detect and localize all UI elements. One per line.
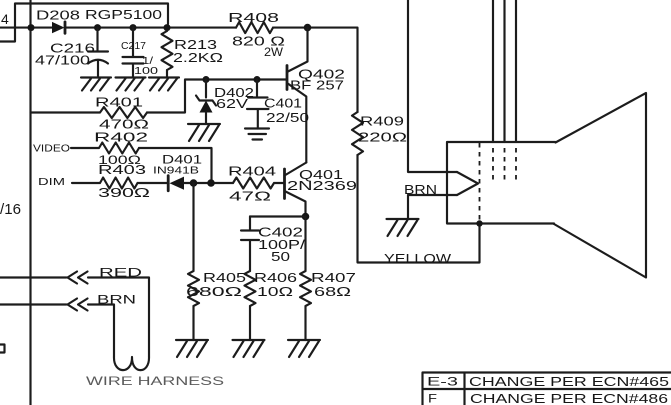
label rev E-3 xyxy=(427,375,459,389)
diode D208 xyxy=(52,22,65,33)
label YELLOW xyxy=(384,252,451,266)
wire RED harness xyxy=(0,278,149,358)
resistor R409 xyxy=(352,112,363,155)
label R408 xyxy=(228,11,279,25)
label 2.2KΩ xyxy=(173,51,223,65)
wire: BRN/grid line from top xyxy=(408,0,457,172)
label R407 xyxy=(311,271,356,285)
svg-text:YELLOW: YELLOW xyxy=(384,252,451,266)
svg-text:WIRE HARNESS: WIRE HARNESS xyxy=(86,374,224,388)
resistor R404 xyxy=(233,178,285,189)
label D401 xyxy=(162,153,202,167)
svg-text:BF 257: BF 257 xyxy=(290,79,344,93)
ground (chassis) under R407 xyxy=(288,340,320,357)
resistor R402 xyxy=(71,143,139,154)
wire: dashed cathode line in neck xyxy=(479,143,481,222)
resistor R408 xyxy=(236,22,273,33)
connector arrow into CRT xyxy=(457,172,478,195)
resistor R405 xyxy=(188,183,199,340)
label R409 xyxy=(360,115,404,129)
svg-text:47/100: 47/100 xyxy=(35,54,90,68)
svg-text:4: 4 xyxy=(1,11,9,27)
resistor R406 xyxy=(245,271,256,340)
node: junction dot CRT neck xyxy=(476,220,482,226)
label C402 xyxy=(258,226,303,240)
CRT funnel envelope xyxy=(554,93,646,278)
svg-text:BRN: BRN xyxy=(97,293,136,307)
wire: main +V rail y=27.6 xyxy=(0,28,358,112)
label D208 xyxy=(36,9,80,23)
svg-text:R402: R402 xyxy=(94,130,148,145)
label 50 xyxy=(271,250,290,264)
svg-text:R407: R407 xyxy=(311,271,356,285)
svg-text:10Ω: 10Ω xyxy=(257,285,293,299)
zener diode D402 xyxy=(196,80,216,125)
wire BRN harness xyxy=(0,305,114,358)
node: junction dot R402 tap xyxy=(207,179,215,187)
label 47/100 xyxy=(35,54,90,68)
label 100Ω xyxy=(98,153,141,167)
wire: YELLOW net to CRT cathode xyxy=(358,155,480,263)
ground (chassis) under C216 xyxy=(81,78,111,91)
node: junction dot R213 xyxy=(164,24,171,31)
node /16 (page reference) xyxy=(0,201,21,218)
node: junction dot Q402 collector xyxy=(304,24,312,32)
label WIRE HARNESS xyxy=(86,374,224,388)
label 390Ω xyxy=(98,186,150,200)
label R404 xyxy=(228,165,276,179)
svg-text:E-3: E-3 xyxy=(427,375,459,389)
label R401 xyxy=(95,96,143,110)
wire: top-left entry loop over D208 label xyxy=(0,4,168,42)
svg-text:/16: /16 xyxy=(0,201,21,218)
ground (chassis) under C217 xyxy=(116,78,146,91)
svg-text:C217: C217 xyxy=(121,41,146,52)
svg-text:62V: 62V xyxy=(216,97,249,111)
label rev F change note xyxy=(470,392,668,405)
ground (chassis) under R405 xyxy=(176,340,208,357)
node VIDEO xyxy=(33,143,70,155)
svg-text:R406: R406 xyxy=(254,271,297,285)
connector chevrons RED xyxy=(68,272,88,284)
resistor R401 xyxy=(31,107,148,118)
label R405 xyxy=(203,271,246,285)
wire: harness strain loops xyxy=(114,357,149,370)
label IN941B xyxy=(153,165,199,177)
svg-text:2.2KΩ: 2.2KΩ xyxy=(173,51,223,65)
svg-text:100: 100 xyxy=(134,65,158,77)
svg-text:C401: C401 xyxy=(264,97,302,111)
svg-text:68Ω: 68Ω xyxy=(314,285,351,299)
svg-text:680Ω: 680Ω xyxy=(186,285,242,299)
svg-text:F: F xyxy=(428,392,437,405)
label R402 xyxy=(94,130,148,145)
svg-text:50: 50 xyxy=(271,250,290,264)
wire: BRN ground stub xyxy=(408,195,457,219)
svg-text:22/50: 22/50 xyxy=(266,111,309,125)
label C401 xyxy=(264,97,302,111)
label rev E-3 change note xyxy=(469,375,669,389)
svg-text:R213: R213 xyxy=(174,38,217,52)
resistor R407 xyxy=(300,271,311,340)
ground (chassis) under R406 xyxy=(233,340,265,357)
wire: CRT gun lead 1 xyxy=(492,0,494,142)
ground (chassis) under D402 xyxy=(188,124,220,141)
node 4 (page reference) xyxy=(1,11,9,27)
node DIM xyxy=(38,176,65,188)
label RED xyxy=(99,266,143,280)
node: junction dot C217 xyxy=(130,24,137,31)
wire: R402 output to DIM node xyxy=(139,148,212,183)
svg-text:R405: R405 xyxy=(203,271,246,285)
wire: dashed gun lead 1 inside CRT xyxy=(492,148,494,183)
label BRN xyxy=(404,183,437,197)
diode D401 xyxy=(168,176,233,191)
node: junction dot C216 xyxy=(94,24,101,31)
label 1/ xyxy=(142,55,153,67)
label rev F xyxy=(428,392,437,405)
node: junction dot R405 tap xyxy=(190,179,198,187)
label R213 xyxy=(174,38,217,52)
ground (chassis) under R213 xyxy=(149,78,179,91)
svg-text:47Ω: 47Ω xyxy=(229,190,271,204)
label Q402 xyxy=(298,68,345,82)
label 2N2369 xyxy=(287,179,357,193)
node: junction dot Q401 emitter xyxy=(302,213,310,221)
wire: base rail of Q402 from R401 riser xyxy=(147,80,287,113)
label 22/50 xyxy=(266,111,309,125)
connector chevrons BRN xyxy=(68,299,88,311)
label D402 xyxy=(214,86,254,100)
resistor R403 xyxy=(72,178,168,189)
svg-text:CHANGE PER ECN#486: CHANGE PER ECN#486 xyxy=(470,392,668,405)
wire: CRT gun lead 3 xyxy=(515,0,517,142)
label RGP5100 xyxy=(85,8,162,22)
label 68Ω xyxy=(314,285,351,299)
label 100P/ xyxy=(258,238,306,252)
svg-text:2W: 2W xyxy=(264,47,283,59)
wire: dashed gun lead 2 inside CRT xyxy=(504,148,506,183)
svg-text:R404: R404 xyxy=(228,165,276,179)
svg-text:R401: R401 xyxy=(95,96,143,110)
svg-text:R409: R409 xyxy=(360,115,404,129)
svg-text:CHANGE PER ECN#465: CHANGE PER ECN#465 xyxy=(469,375,669,389)
svg-text:RED: RED xyxy=(99,266,143,280)
svg-text:DIM: DIM xyxy=(38,176,65,188)
CRT neck box xyxy=(447,142,556,224)
capacitor C217 xyxy=(123,28,144,78)
node: junction dot D402 xyxy=(203,76,210,83)
label R403 xyxy=(98,162,146,177)
capacitor C402 xyxy=(241,217,259,272)
resistor R213 xyxy=(162,31,173,78)
svg-text:220Ω: 220Ω xyxy=(358,131,407,145)
wire: emitter tap to C402 xyxy=(250,217,306,272)
wire: dashed gun lead 3 inside CRT xyxy=(515,148,517,183)
svg-text:D208: D208 xyxy=(36,9,80,23)
node: junction dot C401 xyxy=(254,76,261,83)
transistor Q402 xyxy=(287,28,308,163)
svg-text:390Ω: 390Ω xyxy=(98,186,150,200)
svg-text:BRN: BRN xyxy=(404,183,437,197)
wire: left vertical bus xyxy=(29,0,31,405)
label BF 257 xyxy=(290,79,344,93)
label BRN harness xyxy=(97,293,136,307)
label 100 xyxy=(134,65,158,77)
label 62V xyxy=(216,97,249,111)
label 680Ω xyxy=(186,285,242,299)
label 470Ω xyxy=(99,118,149,132)
svg-text:2N2369: 2N2369 xyxy=(287,179,357,193)
label C217 xyxy=(121,41,146,52)
svg-text:RGP5100: RGP5100 xyxy=(85,8,162,22)
ground (earth) under C401 xyxy=(245,129,269,140)
capacitor C216 xyxy=(88,28,108,78)
transistor Q401 xyxy=(285,163,307,217)
label 47Ω xyxy=(229,190,271,204)
wire: left edge stub xyxy=(0,345,5,353)
label R406 xyxy=(254,271,297,285)
label 820 Ω xyxy=(232,35,285,49)
label Q401 xyxy=(299,168,343,182)
ground (chassis) BRN xyxy=(387,219,419,236)
label C216 xyxy=(50,42,95,56)
wire: CRT gun lead 2 xyxy=(503,0,505,142)
svg-text:R408: R408 xyxy=(228,11,279,25)
svg-text:IN941B: IN941B xyxy=(153,165,199,177)
label 2W xyxy=(264,47,283,59)
svg-text:R403: R403 xyxy=(98,162,146,177)
node: junction dot at bus/rail xyxy=(28,24,35,31)
revision table frame xyxy=(423,373,671,405)
capacitor C401 xyxy=(247,80,269,129)
label 220Ω xyxy=(358,131,407,145)
label 10Ω xyxy=(257,285,293,299)
svg-text:VIDEO: VIDEO xyxy=(33,143,70,155)
